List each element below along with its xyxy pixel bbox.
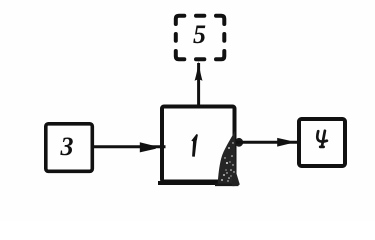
- arrowhead 1 to 5: [195, 61, 203, 81]
- right dash: [222, 34, 226, 41]
- top dash: [196, 14, 204, 18]
- corner TL: [176, 16, 185, 24]
- left dash: [174, 34, 178, 41]
- triangle speckles: [221, 142, 235, 181]
- block 1: [162, 107, 235, 182]
- label 4 (custom open-top four): [317, 131, 327, 147]
- block 4: [299, 119, 345, 166]
- bottom dash: [196, 57, 204, 61]
- shaded triangle in block 1: [218, 131, 236, 184]
- svg-text:5: 5: [193, 20, 206, 49]
- label 1 (custom narrow italic one): [191, 134, 198, 142]
- corner TR: [216, 16, 224, 24]
- wire 1 to 4: [236, 141, 298, 144]
- block 3: [46, 124, 93, 172]
- corner BL: [176, 51, 185, 59]
- junction blob at wire exit of block 1: [235, 138, 243, 147]
- wire 1 to 5: [197, 63, 200, 106]
- dark foot right of bottom corner: [232, 172, 240, 186]
- block 1 thick bottom edge: [158, 181, 239, 185]
- corner BR: [216, 51, 224, 59]
- wire 3 to 1: [94, 145, 166, 148]
- extra ink under triangle bottom: [215, 184, 239, 187]
- block 5 (dashed): [176, 16, 225, 60]
- svg-text:3: 3: [60, 132, 74, 161]
- arrowhead 3 to 1: [140, 142, 156, 152]
- arrowhead 1 to 4: [277, 138, 289, 147]
